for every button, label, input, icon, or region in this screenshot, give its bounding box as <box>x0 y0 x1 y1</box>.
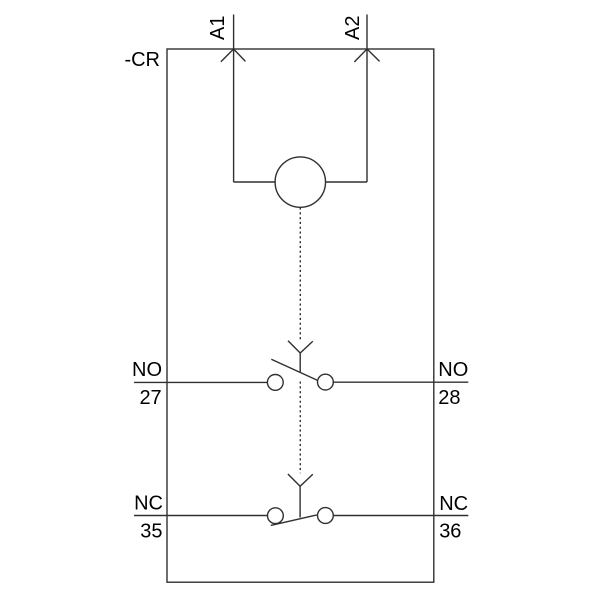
wire NC terminal 36 <box>333 515 468 517</box>
svg-text:NO: NO <box>438 359 468 381</box>
NC contact blade <box>271 515 317 526</box>
wire coil to A2 <box>326 181 368 183</box>
svg-text:27: 27 <box>139 387 161 409</box>
wire terminal A1 lead <box>233 15 235 183</box>
wire A1 to coil <box>234 181 276 183</box>
NO contact fixed terminal 28 (right circle) <box>318 374 334 390</box>
svg-text:A2: A2 <box>342 16 364 40</box>
svg-text:A1: A1 <box>207 16 229 40</box>
NC contact fixed terminal 35 (left circle) <box>268 508 284 524</box>
svg-text:NO: NO <box>132 359 162 381</box>
wire NO terminal 28 <box>333 381 468 383</box>
NO contact actuator fork <box>288 341 313 373</box>
NO contact fixed terminal 27 (left circle) <box>267 375 283 391</box>
svg-text:28: 28 <box>438 387 460 409</box>
relay enclosure outline <box>167 49 434 582</box>
svg-text:36: 36 <box>439 521 461 543</box>
svg-text:NC: NC <box>134 493 163 515</box>
NC contact actuator fork <box>288 474 313 518</box>
coil -CR (relay coil circle) <box>275 157 325 207</box>
wire terminal A2 lead <box>366 15 368 183</box>
NC contact fixed terminal 36 (right circle) <box>318 508 334 524</box>
terminal arrow A2 <box>354 49 379 62</box>
mechanical link coil to NO contact (dotted) <box>299 208 301 340</box>
mechanical link NO to NC contact (dotted) <box>299 382 301 474</box>
svg-text:-CR: -CR <box>124 49 160 71</box>
wire NO terminal 27 <box>134 381 267 383</box>
svg-text:NC: NC <box>439 493 468 515</box>
terminal arrow A1 <box>221 49 246 62</box>
NO contact blade <box>271 359 317 380</box>
wire NC terminal 35 <box>134 515 268 517</box>
svg-text:35: 35 <box>140 520 162 542</box>
